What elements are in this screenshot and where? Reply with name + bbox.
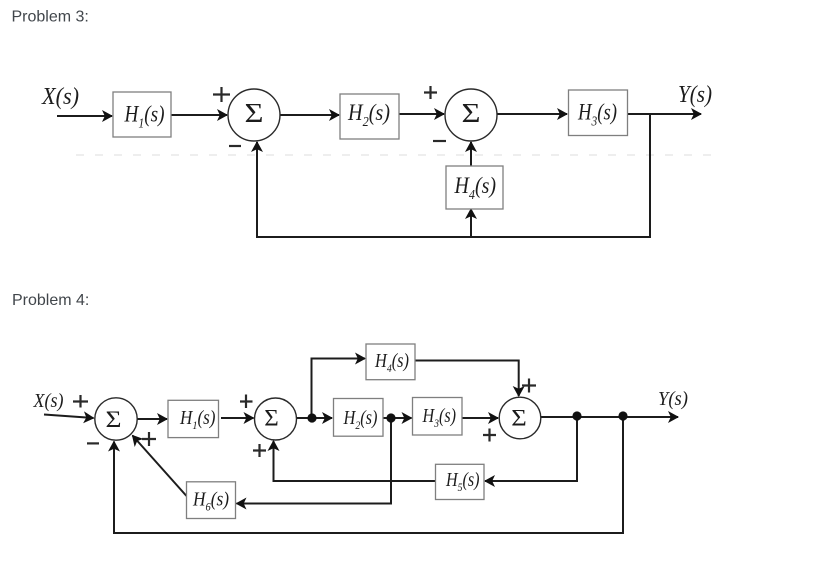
svg-text:H2(s): H2(s) — [343, 407, 378, 432]
svg-text:X(s): X(s) — [41, 84, 79, 110]
svg-text:Y(s): Y(s) — [678, 82, 712, 108]
svg-text:Σ: Σ — [106, 407, 122, 432]
svg-text:Σ: Σ — [462, 97, 481, 128]
svg-text:H1(s): H1(s) — [179, 407, 216, 432]
svg-text:Y(s): Y(s) — [658, 388, 688, 410]
svg-text:H3(s): H3(s) — [422, 405, 457, 430]
svg-text:Problem 4:: Problem 4: — [12, 292, 89, 309]
svg-text:H5(s): H5(s) — [445, 469, 480, 494]
svg-text:X(s): X(s) — [33, 390, 64, 412]
svg-text:H4(s): H4(s) — [374, 350, 409, 375]
svg-text:H6(s): H6(s) — [192, 488, 229, 513]
svg-text:Σ: Σ — [511, 406, 527, 431]
svg-text:Σ: Σ — [264, 406, 279, 431]
svg-text:Σ: Σ — [245, 97, 264, 128]
svg-text:Problem 3:: Problem 3: — [12, 8, 89, 25]
